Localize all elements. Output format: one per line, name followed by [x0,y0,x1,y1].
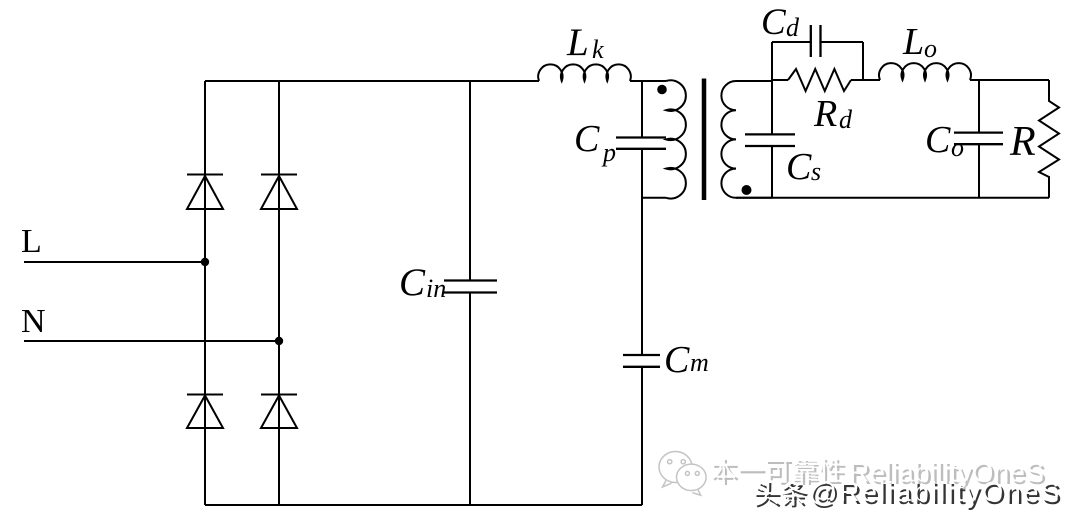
svg-text:in: in [426,274,446,303]
svg-text:C: C [761,2,787,43]
svg-text:m: m [690,348,709,377]
transformer primary winding [642,80,686,198]
svg-text:L: L [21,223,42,260]
diode D4 [261,395,297,429]
wire Cm column lower [641,368,643,505]
watermark line1 white top [711,457,1044,488]
capacitor Cs plates [745,134,795,146]
transformer core bar [702,79,707,201]
svg-text:R: R [813,93,837,135]
svg-text:N: N [21,303,46,340]
wire bottom rail [205,504,642,506]
wire secondary top rail right [970,79,1049,81]
svg-text:p: p [601,138,616,167]
svg-text:@ReliabilityOneS: @ReliabilityOneS [809,476,1062,507]
wire Co column lower [978,145,980,198]
transformer secondary winding [721,81,772,198]
svg-text:d: d [786,13,800,42]
watermark line2 white emboss [754,476,1061,507]
wire input line N [24,340,279,342]
wire snubber box top left [772,41,810,43]
capacitor Cp plates [616,138,666,149]
svg-text:C: C [574,118,600,160]
watermark line1 gray shadow [713,459,1046,490]
svg-text:C: C [399,261,426,304]
diode D3 [187,395,223,429]
polarity dot secondary [742,185,752,195]
wire right bridge column [278,81,280,505]
wire between Rd and Lo [851,79,880,81]
svg-text:C: C [786,146,812,188]
svg-text:L: L [566,21,589,64]
wire Co column upper [978,80,980,132]
wire secondary column upper [771,42,773,134]
wire secondary bottom rail [736,197,1049,199]
diode D2 [261,175,297,210]
svg-text:d: d [839,105,853,134]
svg-text:s: s [811,157,821,186]
wire input line L [24,261,205,263]
capacitor Co plates [954,133,1003,145]
svg-text:C: C [925,119,951,161]
inductor L1 Lk coil [538,64,631,81]
diode D1 [187,175,223,210]
resistor R zigzag branch [1039,80,1059,198]
svg-text:k: k [592,35,604,64]
capacitor Cm plates [623,355,660,367]
capacitor Cd plates [811,25,821,57]
resistor Rd zigzag [788,69,851,91]
svg-text:C: C [664,339,690,381]
svg-text:o: o [924,34,937,63]
junction dot L line [201,258,209,266]
svg-text:o: o [951,133,964,162]
wire secondary column lower [771,147,773,198]
wire Cm column upper [641,81,643,354]
capacitor Cin plates [444,281,497,293]
watermark line2 dark text [757,479,1064,510]
polarity dot primary [657,85,667,95]
wire left bridge column [204,81,206,505]
inductor L2 Lo coil [879,63,971,80]
wire snubber box top right [821,42,863,80]
wire top rail right of Lk [630,80,663,82]
wire top rail [205,80,539,82]
wire Cin column upper [469,81,471,280]
watermark wechat icon [659,452,706,496]
wire secondary top rail left [772,79,788,81]
svg-text:R: R [1009,119,1036,165]
svg-text:L: L [902,21,924,63]
junction dot N line [275,337,283,345]
wire Cin column lower [469,294,471,506]
